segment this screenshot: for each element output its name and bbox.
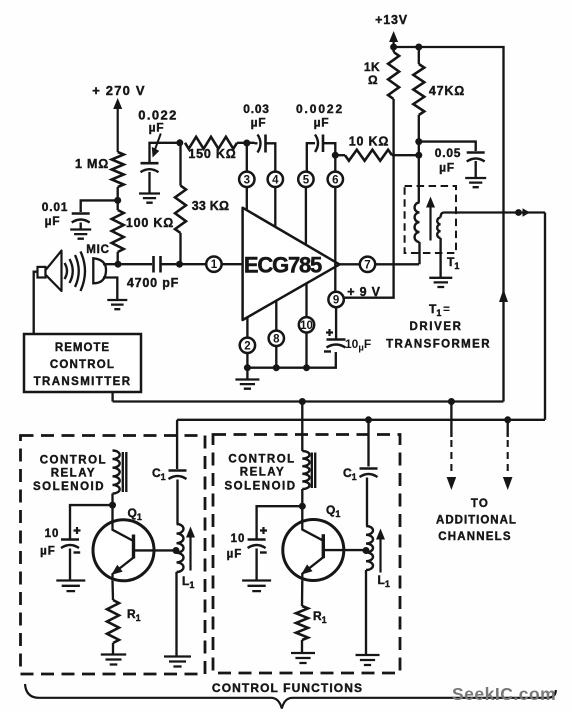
wire L1 to ground box2 [365, 570, 367, 655]
resistor R1 box1 [107, 600, 119, 643]
ground under R1 box1 [101, 655, 126, 665]
svg-text:TRANSMITTER: TRANSMITTER [34, 376, 132, 388]
op-amp ECG785 outline [243, 208, 340, 320]
svg-text:6: 6 [332, 174, 338, 186]
T1 note label [429, 302, 450, 318]
10uF plus box1 [74, 527, 81, 534]
svg-text:=: = [443, 302, 450, 316]
Q1 emitter to R1 box2 [301, 581, 304, 607]
wire bus1 to solenoid2 [301, 402, 303, 452]
svg-text:TRANSFORMER: TRANSFORMER [386, 339, 491, 351]
10uF plus box2 [260, 527, 267, 534]
bus wire upper [113, 400, 504, 402]
svg-text:ECG785: ECG785 [244, 253, 322, 278]
wire to 10uF box1 [70, 505, 113, 538]
wire primary to pin7 line [418, 242, 420, 264]
capacitor C1 box1 [169, 471, 187, 480]
svg-text:DRIVER: DRIVER [409, 321, 462, 333]
R1 label box1 [127, 607, 141, 623]
+13V supply arrow [389, 31, 398, 52]
R1 label box2 [313, 609, 327, 625]
svg-text:1 MΩ: 1 MΩ [75, 157, 109, 171]
wire speaker to transmitter box [34, 272, 38, 334]
wire to 0.05uF [419, 142, 476, 151]
10uF ground stem box2 [255, 549, 257, 581]
node bus1 solenoid2 [299, 398, 306, 405]
node 47K/10K [415, 152, 422, 159]
ground under 10uF box1 [56, 581, 85, 592]
pin 6 to pin 9 wire [334, 187, 336, 292]
node base/L1 box1 [173, 547, 180, 554]
microphone element MIC [93, 258, 106, 283]
47K value label [429, 84, 465, 98]
svg-text:+ 270 V: + 270 V [92, 83, 146, 98]
svg-text:10: 10 [300, 320, 313, 332]
svg-text:µF: µF [149, 121, 165, 135]
svg-text:TO: TO [471, 498, 489, 510]
wire to 0.01uF [81, 200, 118, 212]
CONTROL label [50, 359, 115, 371]
T1 dashed box [405, 186, 456, 253]
pin 2 circle [240, 338, 255, 353]
node pin10 ground [303, 364, 310, 371]
pin 8 riser [275, 301, 277, 331]
node pin6/10K [332, 152, 339, 159]
pin 10 riser [305, 283, 307, 317]
10uF ground stem box1 [69, 549, 71, 581]
svg-text:µF: µF [45, 214, 61, 228]
wire 10K to 47K node [392, 154, 419, 156]
control box 1 dashed outline [21, 436, 206, 675]
svg-text:7: 7 [364, 259, 370, 271]
node 0.022/150K/33K [176, 139, 183, 146]
pin 6 circle [328, 172, 343, 187]
capacitor 0.03 uF [258, 135, 266, 153]
ground under L1 box2 [356, 655, 380, 665]
node bus2 channel tap [504, 416, 511, 423]
capacitor 0.022 uF [141, 163, 159, 172]
RELAY label box2 [240, 467, 285, 479]
0.03 left lead [255, 142, 258, 144]
wire pin9 to 10uF [335, 307, 337, 339]
node pin8 ground [273, 364, 280, 371]
svg-text:47KΩ: 47KΩ [429, 84, 465, 98]
capacitor 4700 pF [154, 256, 161, 273]
ground under ECG785 [235, 380, 259, 389]
Q1 transistor internals box1 [111, 520, 133, 581]
svg-text:33 KΩ: 33 KΩ [192, 199, 229, 213]
remote control transmitter box [24, 334, 141, 392]
wire solenoid1 to collector [111, 494, 113, 522]
capacitor C1 box2 [360, 469, 378, 478]
sound waves [65, 252, 86, 292]
capacitor 0.01 uF [72, 214, 90, 223]
capacitor 10uF pin9 [327, 340, 346, 348]
node base/L1 box2 [363, 547, 370, 554]
ground bus pins 2/8/10 [247, 333, 335, 368]
REMOTE label [55, 342, 110, 354]
node +13V/47K [415, 44, 422, 51]
T1 primary winding [415, 203, 420, 243]
resistor 100 K&#937; [112, 210, 124, 252]
pin 10 circle [299, 317, 314, 332]
svg-text:µF: µF [227, 549, 243, 561]
svg-text:1: 1 [211, 259, 218, 271]
pin 5 riser lower [305, 187, 307, 245]
ground under 0.05uF [465, 178, 486, 187]
0.022 uF value label [138, 108, 178, 135]
speaker horn [46, 251, 62, 291]
L1 adjust arrow box2 [376, 529, 385, 573]
svg-text:RELAY: RELAY [51, 468, 96, 480]
svg-text:1K: 1K [364, 60, 380, 74]
node junction 1M/0.01uF/100K [114, 197, 121, 204]
node solenoid1/10uF [109, 502, 116, 509]
ground under mic [107, 300, 127, 309]
33 K&#937; value label [192, 199, 229, 213]
+9V label [347, 285, 381, 299]
mic output wire [103, 263, 152, 265]
pin 9 circle [328, 292, 343, 307]
wire 4700pF to pin 1 [161, 263, 207, 265]
10uF minus sign [324, 350, 331, 352]
capacitor 10uF box1 [61, 540, 79, 549]
ground under 10uF box2 [242, 581, 271, 592]
transistor Q1 box1 circle [93, 520, 154, 581]
CONTROL label box1 [40, 455, 107, 467]
bus wire lower [177, 419, 545, 421]
resistor 1 M&#937; [112, 152, 124, 187]
up arrowhead on channel rail [499, 289, 508, 302]
pin 1 circle [206, 257, 221, 272]
ground under T1 [429, 278, 452, 287]
0.022 pointer arrow [152, 134, 161, 158]
wire C1 to L1 box1 [176, 480, 178, 525]
0.0022 right lead to pin 6 [323, 143, 335, 171]
10uF minus box2 [260, 551, 267, 553]
inductor L1 box1 [177, 524, 184, 572]
wire 1M-bottom to mic node [117, 187, 119, 210]
resistor 10 K&#937; [345, 150, 392, 161]
svg-text:8: 8 [273, 333, 280, 345]
resistor 33 K&#937; [175, 143, 186, 233]
wire 1K to +9V line [344, 99, 394, 298]
Q1 emitter to R1 box1 [111, 581, 114, 600]
0.05uF ground stem [475, 161, 477, 178]
svg-text:SeekIC.com: SeekIC.com [452, 684, 556, 704]
node bus1 channel tap [448, 398, 455, 405]
Q1 label box1 [128, 506, 142, 522]
resistor 1K [388, 47, 399, 99]
CHANNELS label [438, 531, 512, 543]
wire C1 to L1 box2 [366, 478, 368, 527]
svg-text:150 KΩ: 150 KΩ [188, 147, 236, 161]
0.03 uF value label [243, 102, 270, 130]
wire solenoid2 to collector [301, 489, 303, 521]
MIC label [86, 244, 109, 256]
svg-text:10: 10 [231, 533, 246, 545]
Q1 base wire box1 [134, 549, 177, 551]
node pin3/0.03uF [243, 140, 250, 147]
0.022uF ground stem [148, 172, 150, 193]
SOLENOID label box1 [33, 481, 105, 493]
wire pin6 node to 10K [335, 154, 345, 156]
TRANSFORMER label [386, 339, 491, 351]
pin 8 circle [269, 331, 284, 346]
Q1 label box2 [326, 503, 340, 519]
node mic/100K/4700pF [115, 261, 122, 268]
pin 3 riser [246, 143, 248, 210]
dashed arrow channel 1 [447, 402, 457, 491]
svg-text:10 KΩ: 10 KΩ [349, 135, 389, 149]
resistor 47K [413, 47, 424, 115]
capacitor 10uF box2 [248, 540, 266, 549]
control box 2 dashed outline [213, 435, 400, 674]
svg-text:MIC: MIC [86, 244, 109, 256]
DRIVER label [409, 321, 462, 333]
svg-text:2: 2 [244, 340, 250, 352]
svg-text:CONTROL FUNCTIONS: CONTROL FUNCTIONS [212, 681, 363, 695]
10uF value box1 [40, 528, 59, 558]
transistor Q1 box2 circle [283, 520, 344, 581]
node pin2 ground [244, 364, 251, 371]
pin 7 circle [360, 257, 375, 272]
node 47K/0.05uF [415, 138, 422, 145]
svg-text:µF: µF [314, 116, 330, 130]
wire T1 output to bus2 [544, 213, 546, 420]
C1 label box2 [343, 466, 357, 482]
Q1 base wire box2 [323, 549, 366, 551]
wire bus2 to C1 box2 [367, 420, 369, 467]
CONTROL label box2 [228, 454, 295, 466]
svg-text:SOLENOID: SOLENOID [33, 481, 105, 493]
+270V supply arrow [113, 98, 122, 152]
1 M&#937; value label [75, 157, 109, 171]
ECG785 label [244, 253, 322, 278]
IC ground stem [246, 368, 248, 379]
wire to 10uF box2 [257, 506, 303, 538]
svg-text:0.05: 0.05 [435, 146, 462, 160]
svg-text:CHANNELS: CHANNELS [438, 531, 512, 543]
pin 1 input wire [222, 263, 243, 265]
ground under 0.022uF [139, 194, 160, 203]
svg-text:10: 10 [45, 528, 60, 540]
node bus2 C1 box2 [365, 416, 372, 423]
svg-text:+13V: +13V [375, 13, 408, 27]
solenoid core box1 [123, 452, 127, 492]
wire 33K to input node [179, 233, 181, 264]
resistor R1 box2 [296, 606, 308, 640]
svg-text:Ω: Ω [368, 73, 378, 87]
0.01 uF value label [42, 200, 69, 228]
svg-text:9: 9 [333, 295, 339, 307]
svg-text:4: 4 [272, 174, 279, 186]
L1 label box2 [378, 573, 390, 589]
pin 5 circle [298, 172, 313, 187]
TO label [471, 498, 489, 510]
0.01uF ground stem [80, 223, 82, 230]
signal flow arrowhead [523, 208, 531, 216]
10 K&#937; value label [349, 135, 389, 149]
svg-text:µF: µF [251, 116, 267, 130]
svg-text:0.03: 0.03 [243, 102, 270, 116]
svg-text:5: 5 [303, 174, 310, 186]
resistor 150 K&#937; [185, 137, 237, 149]
stub transmitter box to bus [111, 392, 113, 402]
CONTROL FUNCTIONS label [212, 681, 363, 695]
1K value label [364, 60, 380, 87]
TRANSMITTER label [34, 376, 132, 388]
speaker driver square [38, 267, 46, 278]
pin 4 riser lower [274, 187, 276, 227]
10uF value label [345, 337, 371, 354]
10uF value box2 [227, 533, 246, 561]
pin 7 output wire [340, 263, 420, 265]
signal flow dot [515, 209, 522, 216]
ground under R1 box2 [291, 653, 315, 663]
ground under 0.01uF [70, 230, 91, 239]
pin 4 circle [268, 172, 283, 187]
wire R1 to ground box2 [301, 640, 303, 653]
T1 core arrow [426, 197, 435, 241]
4700 pF value label [127, 276, 179, 290]
wire L1 to ground box1 [175, 572, 177, 656]
C1 label box1 [152, 466, 166, 482]
node 33K/input [176, 261, 183, 268]
0.0022 left lead to pin 5 [307, 143, 315, 171]
svg-text:100 KΩ: 100 KΩ [126, 216, 174, 230]
wire 150K to pin3 node [237, 142, 255, 144]
relay solenoid coil box2 [302, 451, 309, 489]
capacitor 0.05 uF [467, 153, 485, 162]
inductor L1 box2 [366, 526, 373, 570]
bottom brace [25, 684, 556, 709]
T1 winding label [447, 255, 459, 271]
L1 label box1 [182, 574, 194, 590]
node solenoid2/10uF [299, 503, 306, 510]
svg-text:µF: µF [439, 161, 455, 175]
svg-text:RELAY: RELAY [240, 467, 285, 479]
wire 47K to T1 [418, 115, 420, 203]
pin 3 circle [239, 172, 254, 187]
relay solenoid coil box1 [113, 451, 120, 494]
10uF minus box1 [74, 551, 81, 553]
svg-text:µF: µF [40, 546, 56, 558]
svg-text:CONTROL: CONTROL [228, 454, 295, 466]
svg-text:SOLENOID: SOLENOID [224, 481, 296, 493]
svg-text:+ 9 V: + 9 V [347, 285, 381, 299]
0.0022 uF value label [296, 102, 344, 130]
svg-text:0.0022: 0.0022 [296, 102, 344, 116]
wire secondary to ground [439, 238, 441, 277]
+13V supply label [375, 13, 408, 27]
150 K&#937; value label [188, 147, 236, 161]
+270V supply label [92, 83, 146, 98]
svg-text:ADDITIONAL: ADDITIONAL [436, 515, 517, 527]
ADDITIONAL label [436, 515, 517, 527]
svg-text:REMOTE: REMOTE [55, 342, 110, 354]
0.022uF top lead [150, 143, 180, 163]
wire R1 to ground box1 [112, 643, 114, 654]
dashed arrow channel 2 [503, 420, 513, 490]
svg-text:3: 3 [244, 174, 250, 186]
svg-text:0.01: 0.01 [42, 200, 69, 214]
pin 2 riser [246, 317, 248, 337]
svg-text:CONTROL: CONTROL [50, 359, 115, 371]
SeekIC watermark [452, 684, 556, 704]
RELAY label box1 [51, 468, 96, 480]
wire 100K to mic node [117, 252, 119, 264]
svg-text:CONTROL: CONTROL [40, 455, 107, 467]
node +13V/1K [390, 44, 397, 51]
L1 adjust arrow box1 [186, 527, 195, 571]
SOLENOID label box2 [224, 481, 296, 493]
bus2 drop to C1 box1 [176, 420, 178, 469]
100 K&#937; value label [126, 216, 174, 230]
ground under L1 box1 [164, 657, 191, 667]
solenoid core box2 [312, 453, 315, 489]
svg-text:4700 pF: 4700 pF [127, 276, 179, 290]
Q1 transistor internals box2 [301, 520, 323, 581]
T1 secondary winding [437, 213, 545, 239]
mic ground lead [103, 278, 117, 300]
0.05 uF value label [435, 146, 462, 175]
wire 0.03uF to pin 4 [266, 143, 276, 171]
+13V top rail wire [394, 47, 504, 402]
capacitor 0.0022 uF [315, 135, 323, 153]
10uF plus sign [326, 329, 333, 336]
